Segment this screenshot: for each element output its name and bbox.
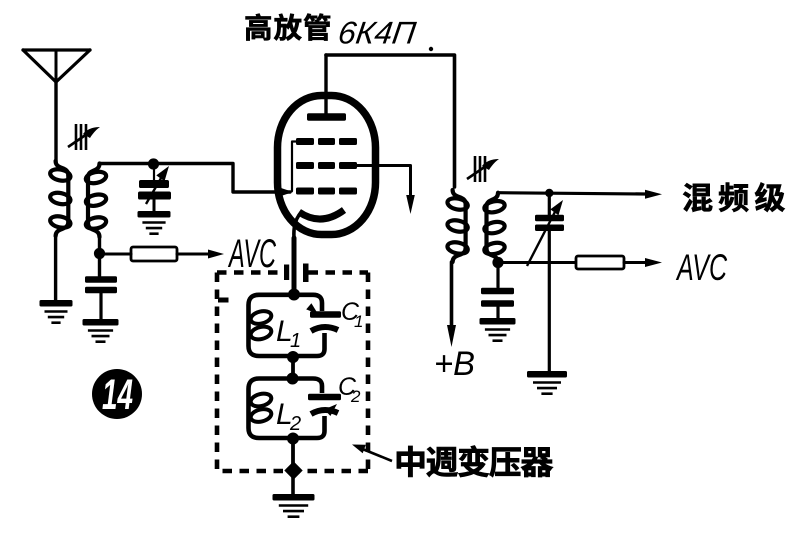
node: padder junction	[148, 158, 159, 169]
svg-text:6К4П: 6К4П	[336, 15, 418, 51]
label: AVC (right)	[676, 247, 728, 288]
capacitor C1	[306, 303, 341, 331]
tube grid rows	[296, 138, 357, 195]
antenna	[23, 50, 90, 82]
shield box (dashed) of IF transformer	[217, 273, 368, 472]
inductor L2 loops	[249, 392, 272, 424]
tick marks flanking wire entry on shield top	[284, 264, 309, 283]
svg-text:14: 14	[102, 371, 133, 419]
wire: grid line from T1 secondary top to tube	[100, 164, 294, 197]
ground (antenna coil)	[40, 300, 73, 323]
tube cathode	[294, 210, 344, 238]
svg-text:AVC: AVC	[228, 232, 277, 276]
resistor: AVC right	[576, 256, 624, 269]
op-amp/tube U1 envelope (6К4П)	[278, 96, 376, 235]
tube internal grid tie wire	[292, 142, 296, 192]
ground (grid trimmer)	[138, 211, 171, 234]
label: 中週变压器	[397, 446, 553, 477]
inductor T2 primary	[446, 190, 468, 262]
wire: shield to ground	[291, 477, 295, 495]
wire: secondary bottom to resistor	[498, 261, 576, 264]
capacitor: cathode bypass (left)	[85, 276, 117, 319]
badge: figure number 14	[92, 369, 142, 419]
T1 adjustable core arrow	[68, 124, 100, 150]
node: tank2 bottom	[287, 433, 299, 469]
ground (AVC bypass)	[480, 318, 516, 341]
tank2 frame wires	[249, 379, 325, 439]
label C2	[338, 373, 361, 406]
T2 adjustable core arrow	[467, 156, 499, 182]
wire: antenna lead down	[54, 82, 57, 161]
wire: cathode down to IF box	[292, 238, 297, 292]
node: between tanks (upper)	[287, 351, 300, 385]
resistor: AVC feed	[104, 247, 177, 261]
ground (bypass cap)	[83, 319, 119, 342]
svg-text:1: 1	[354, 312, 363, 331]
capacitor: tuning (variable)	[527, 193, 564, 371]
wire: screen grid lead w/ down arrow	[357, 166, 415, 215]
inductor T1 primary	[49, 161, 71, 236]
inductor T2 secondary	[483, 193, 505, 263]
wire: arrow to AVC right	[624, 258, 662, 267]
inductor L1 loops	[249, 309, 272, 341]
label: tube type 6К4П	[336, 15, 418, 51]
label: tube caption 高放管	[246, 14, 331, 41]
svg-text:1: 1	[290, 330, 301, 352]
wire: plate to top rail	[326, 47, 455, 187]
label C1	[341, 298, 363, 331]
label: +B	[434, 345, 475, 383]
wire: arrow to AVC	[177, 250, 224, 259]
capacitor: AVC bypass right	[481, 263, 514, 320]
wire: T1 primary to ground	[54, 236, 57, 300]
svg-text:+B: +B	[434, 345, 475, 383]
label: AVC (left)	[228, 232, 277, 276]
inductor T1 secondary	[85, 164, 107, 238]
callout arrow to shield box	[352, 445, 392, 462]
svg-text:2: 2	[289, 413, 301, 435]
tick mark on shield left edge	[218, 298, 229, 303]
node: T2 secondary bottom	[492, 257, 503, 268]
wire: to mixer stage	[498, 190, 662, 199]
label L1	[276, 315, 301, 352]
label L2	[276, 398, 301, 435]
capacitor C2	[308, 394, 341, 416]
node: tuning cap junction	[545, 189, 553, 197]
tank1 frame wires	[249, 295, 325, 356]
ground (IF transformer)	[273, 494, 315, 517]
capacitor: trimmer to ground at grid	[138, 166, 171, 212]
ground (tuning cap)	[527, 371, 567, 394]
label: 混频级	[683, 182, 785, 211]
node: tank1 top	[288, 289, 300, 301]
svg-text:AVC: AVC	[676, 247, 728, 288]
svg-text:2: 2	[350, 387, 361, 406]
node: shield bottom junction (diamond)	[284, 461, 302, 479]
node: T1 secondary bottom	[94, 237, 105, 276]
tube anode plate	[307, 55, 346, 121]
wire: +B feed with arrow	[447, 262, 456, 347]
